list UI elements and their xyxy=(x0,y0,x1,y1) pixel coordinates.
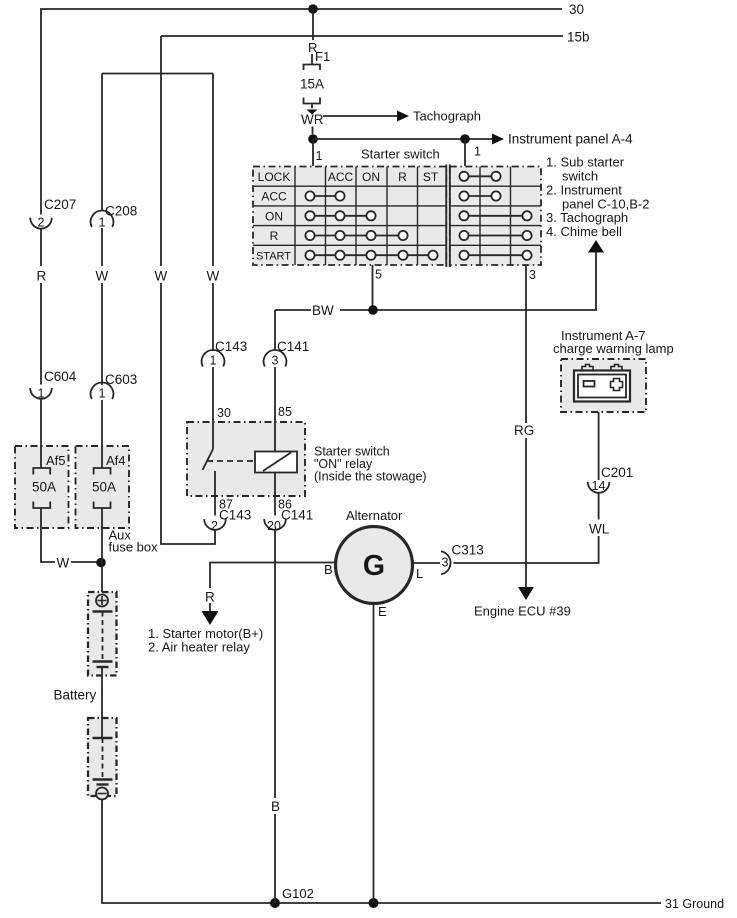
svg-text:30: 30 xyxy=(569,2,584,17)
node E ground junction xyxy=(369,898,379,908)
svg-text:15b: 15b xyxy=(567,30,590,45)
fuse box Af4 xyxy=(76,446,130,528)
node W junction xyxy=(96,558,106,568)
wire W jumper xyxy=(102,73,213,75)
wire pin 5 output xyxy=(372,265,374,310)
table row labels xyxy=(256,170,291,263)
wire W column 4 top xyxy=(212,74,214,351)
svg-text:W: W xyxy=(207,269,220,284)
relay actuating link (dashed) xyxy=(207,460,255,462)
svg-text:WR: WR xyxy=(301,112,324,127)
wire RG to engine ECU xyxy=(525,438,527,587)
svg-text:1. Sub starter: 1. Sub starter xyxy=(546,155,625,170)
connector C207 xyxy=(30,218,52,229)
battery icon in lamp box xyxy=(574,365,630,402)
label starter motor / air heater xyxy=(148,626,263,655)
wire R (C207 to C604) xyxy=(40,229,42,385)
wire C604 to fuse Af5 xyxy=(40,399,42,468)
svg-text:30: 30 xyxy=(217,406,231,420)
svg-text:R: R xyxy=(205,590,215,605)
relay contact blade xyxy=(203,449,214,470)
svg-text:50A: 50A xyxy=(32,480,56,495)
svg-text:C603: C603 xyxy=(105,372,137,387)
wire C201 to lamp xyxy=(598,412,600,480)
svg-text:(Inside the stowage): (Inside the stowage) xyxy=(314,470,427,484)
wire C141 to relay pin 85 xyxy=(274,367,276,452)
contacts right block row LOCK xyxy=(459,172,500,181)
svg-text:C143: C143 xyxy=(215,339,247,354)
svg-text:Battery: Battery xyxy=(54,688,97,703)
fuse box Af5 xyxy=(15,446,69,528)
svg-text:R: R xyxy=(270,229,279,243)
svg-text:fuse box: fuse box xyxy=(109,540,159,555)
wire junction bus to instrument panel xyxy=(313,138,492,140)
svg-text:ON: ON xyxy=(265,209,283,223)
svg-text:switch: switch xyxy=(562,168,598,183)
arrow instrument panel A-4 xyxy=(492,134,504,145)
svg-text:C201: C201 xyxy=(601,465,633,480)
svg-text:ON: ON xyxy=(362,170,380,184)
svg-text:3. Tachograph: 3. Tachograph xyxy=(546,210,628,225)
svg-text:Engine ECU #39: Engine ECU #39 xyxy=(474,604,571,619)
wire relay pin 87 xyxy=(214,471,216,516)
wire W column 3 (15b feed) xyxy=(161,36,215,544)
wire tachograph branch xyxy=(323,115,398,117)
svg-text:B: B xyxy=(324,562,333,577)
svg-text:1: 1 xyxy=(38,387,45,401)
svg-text:31 Ground: 31 Ground xyxy=(665,897,724,911)
charge warning lamp box xyxy=(561,359,646,412)
wire C143 to relay pin 30 xyxy=(212,367,214,449)
wire 15b bus xyxy=(161,35,563,37)
svg-text:15A: 15A xyxy=(300,77,324,92)
node WR junction xyxy=(308,134,318,144)
wire R drop from 30 bus xyxy=(312,9,314,40)
svg-text:2. Instrument: 2. Instrument xyxy=(546,183,622,198)
svg-text:Tachograph: Tachograph xyxy=(413,109,481,124)
wire alternator E to ground xyxy=(373,604,375,904)
wire starter motor feed (R) xyxy=(209,562,211,611)
fuse F1 xyxy=(304,54,321,109)
svg-text:3: 3 xyxy=(529,268,536,282)
svg-text:RG: RG xyxy=(514,423,534,438)
contacts ACC row xyxy=(305,191,344,200)
starter switch contact table left block xyxy=(253,165,446,268)
svg-text:WL: WL xyxy=(589,522,610,537)
node BW junction xyxy=(368,305,378,315)
svg-text:Af4: Af4 xyxy=(106,453,126,468)
wire pin 3 output (RG) xyxy=(525,265,527,423)
connector C143 pin 2 xyxy=(204,519,226,530)
fuse Af5 element xyxy=(33,468,50,508)
svg-text:4. Chime bell: 4. Chime bell xyxy=(546,224,622,239)
svg-text:W: W xyxy=(155,269,168,284)
arrow starter motor xyxy=(202,611,219,625)
wire between battery cells xyxy=(101,676,103,719)
svg-text:1: 1 xyxy=(99,387,106,401)
arrow tachograph xyxy=(397,111,409,122)
svg-text:charge warning lamp: charge warning lamp xyxy=(553,341,674,356)
svg-text:C604: C604 xyxy=(44,369,77,384)
wire L to C313 xyxy=(413,562,441,564)
arrowhead down at WR xyxy=(307,110,318,115)
svg-text:G: G xyxy=(363,550,385,582)
svg-text:1: 1 xyxy=(316,149,323,163)
wire Af5 out (W) xyxy=(41,508,101,562)
wire BW xyxy=(275,253,596,311)
svg-text:Alternator: Alternator xyxy=(346,508,403,523)
svg-text:50A: 50A xyxy=(92,480,116,495)
node junction top bus xyxy=(308,4,318,14)
relay coil xyxy=(255,452,297,473)
svg-text:ACC: ACC xyxy=(261,190,287,204)
wire battery to ground xyxy=(102,800,661,904)
contacts R row xyxy=(305,231,407,240)
contacts ON row xyxy=(305,211,375,220)
svg-text:C208: C208 xyxy=(105,204,137,219)
list of switch outputs xyxy=(546,155,649,240)
starter switch contact table right block xyxy=(450,165,541,268)
svg-text:F1: F1 xyxy=(315,49,330,64)
contacts right block row R xyxy=(459,231,531,240)
svg-text:E: E xyxy=(378,604,387,619)
wire C141-20 to ground (B) xyxy=(274,530,276,903)
wire WR to junction xyxy=(312,127,314,135)
svg-text:ST: ST xyxy=(423,170,439,184)
contacts right block row ACC xyxy=(459,191,500,200)
svg-text:ACC: ACC xyxy=(328,170,354,184)
wire W column 2 top xyxy=(101,74,103,212)
svg-text:Af5: Af5 xyxy=(46,453,66,468)
wire BW drop to C141 pin 3 xyxy=(274,310,276,351)
connector C313 xyxy=(441,551,451,574)
svg-text:L: L xyxy=(416,566,423,581)
svg-text:85: 85 xyxy=(278,405,292,419)
svg-text:G102: G102 xyxy=(282,886,314,901)
connector C141 pin 20 xyxy=(264,519,286,530)
wire relay pin 86 xyxy=(274,473,276,516)
connector C208 xyxy=(91,211,114,227)
battery lower cell xyxy=(88,718,117,800)
connector C141 pin 3 xyxy=(264,350,287,366)
connector C603 xyxy=(91,383,114,399)
connector C201 pin 14 xyxy=(588,482,610,493)
svg-text:C143: C143 xyxy=(219,508,251,523)
svg-text:BW: BW xyxy=(312,303,334,318)
wire C603 to fuse Af4 xyxy=(101,400,103,468)
label Aux fuse box xyxy=(109,528,159,555)
svg-text:3: 3 xyxy=(442,556,449,570)
svg-text:R: R xyxy=(398,170,407,184)
wire C313 to WL xyxy=(454,493,599,563)
svg-text:2: 2 xyxy=(38,216,45,230)
svg-text:C141: C141 xyxy=(277,339,309,354)
node dot right xyxy=(460,134,470,144)
label Instrument A-7 charge warning lamp xyxy=(553,328,674,356)
contacts right block row START xyxy=(459,251,531,260)
wire Af4 to battery xyxy=(101,508,103,594)
svg-text:1: 1 xyxy=(210,354,217,368)
relay box xyxy=(187,422,305,496)
svg-text:panel C-10,B-2: panel C-10,B-2 xyxy=(562,196,649,211)
label starter switch ON relay xyxy=(314,445,427,484)
contacts right block row ON xyxy=(459,211,531,220)
svg-text:C313: C313 xyxy=(452,543,484,558)
svg-text:20: 20 xyxy=(267,519,281,533)
svg-text:START: START xyxy=(256,251,291,263)
alternator G xyxy=(336,527,413,604)
wire 30 bus xyxy=(41,9,562,215)
svg-text:C207: C207 xyxy=(44,197,76,212)
svg-text:Starter switch: Starter switch xyxy=(361,147,440,162)
svg-text:B: B xyxy=(271,799,280,814)
contacts START row xyxy=(305,251,437,260)
svg-text:5: 5 xyxy=(375,268,382,282)
svg-text:W: W xyxy=(96,269,109,284)
connector C143 pin 1 xyxy=(202,350,225,366)
table column headers xyxy=(328,170,439,184)
wire B to alternator xyxy=(210,562,336,564)
svg-text:1: 1 xyxy=(474,145,481,159)
svg-text:Instrument panel A-4: Instrument panel A-4 xyxy=(508,132,633,147)
svg-text:14: 14 xyxy=(592,479,606,493)
arrow chime bell feed xyxy=(588,240,604,253)
wire pin 1 right into switch xyxy=(464,139,466,166)
battery xyxy=(88,592,117,676)
svg-text:LOCK: LOCK xyxy=(258,170,291,184)
svg-text:3: 3 xyxy=(272,354,279,368)
svg-text:R: R xyxy=(37,269,47,284)
fuse Af4 element xyxy=(94,468,111,508)
connector C604 xyxy=(30,388,52,399)
wire W (C208 to C603) xyxy=(101,228,103,385)
svg-text:W: W xyxy=(57,556,70,571)
svg-text:1: 1 xyxy=(99,216,106,230)
svg-text:2. Air heater relay: 2. Air heater relay xyxy=(148,640,250,655)
node G102 xyxy=(270,898,280,908)
wire pin 1 left into switch xyxy=(312,139,314,166)
svg-text:2: 2 xyxy=(211,519,218,533)
arrow engine ECU xyxy=(518,587,534,600)
